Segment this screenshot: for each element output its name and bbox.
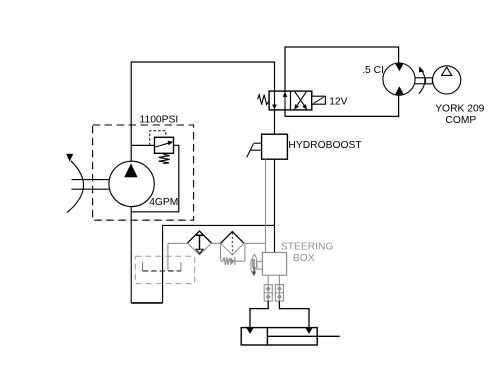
svg-text:12V: 12V <box>329 96 347 107</box>
gray line filter to steering box <box>245 242 266 244</box>
solenoid coil <box>312 96 326 104</box>
svg-text:1100PSI: 1100PSI <box>140 114 179 125</box>
solenoid valve V1 <box>258 91 326 110</box>
filter bypass check valve <box>221 244 245 265</box>
motor shaft <box>415 78 433 84</box>
check valve block left <box>264 285 272 301</box>
motor M1 <box>383 63 415 95</box>
pump enclosure (dashed) <box>93 125 194 220</box>
hydroboost <box>247 134 288 159</box>
valve spring <box>258 95 270 105</box>
cooler dashed enclosure <box>135 256 194 283</box>
pump P1 <box>109 161 154 206</box>
svg-text:COMP: COMP <box>445 115 476 126</box>
wire pump outlet to valve P port <box>131 62 274 161</box>
svg-text:.5 CI: .5 CI <box>362 65 384 76</box>
wire relief valve outlet <box>131 145 179 212</box>
gray drop line to cooler loop <box>167 243 169 271</box>
svg-text:4GPM: 4GPM <box>149 197 178 208</box>
wire hydroboost PS feed (gray) <box>265 159 267 252</box>
left position: straight arrows <box>274 91 276 110</box>
right position: crossed arrows <box>297 92 307 106</box>
cooler C1 <box>188 231 212 255</box>
svg-text:YORK 209: YORK 209 <box>435 104 484 115</box>
wire pump inlet <box>130 206 132 303</box>
svg-text:STEERING: STEERING <box>281 241 334 252</box>
steering box outlet port right (gray) <box>278 275 280 284</box>
svg-text:BOX: BOX <box>293 253 315 264</box>
wire valve to hydroboost <box>274 110 276 134</box>
relief valve RV1 <box>155 137 174 163</box>
wire hydroboost return (black) to steering box <box>274 159 276 252</box>
motor rotation arrow <box>419 66 425 93</box>
steering wheel <box>251 254 257 276</box>
arrow into cylinder left <box>246 328 253 334</box>
svg-text:HYDROBOOST: HYDROBOOST <box>288 140 362 151</box>
check valve block right <box>275 285 283 301</box>
wire return bottom <box>131 302 162 304</box>
gray line between cooler and filter <box>211 242 220 244</box>
pump rotation arrow <box>66 154 83 213</box>
wire valve B port to motor loop bottom <box>285 95 399 116</box>
relief valve pilot line (dashed) <box>150 131 166 146</box>
wire valve A port to motor loop top <box>285 47 399 91</box>
steering box outlet port left (gray) <box>267 275 269 284</box>
cooler loop <box>143 262 181 271</box>
compressor <box>433 66 461 94</box>
pump shaft <box>72 180 110 190</box>
wire to cylinder left <box>250 301 268 327</box>
steering box <box>257 253 287 276</box>
gray supply line to cooler <box>168 242 188 244</box>
cylinder <box>241 328 340 345</box>
wire relief valve tap <box>131 144 154 146</box>
arrow into cylinder right <box>305 328 312 334</box>
filter F1 <box>221 232 244 255</box>
wire to cylinder right <box>279 301 309 327</box>
wire return branch to pump <box>163 225 275 302</box>
